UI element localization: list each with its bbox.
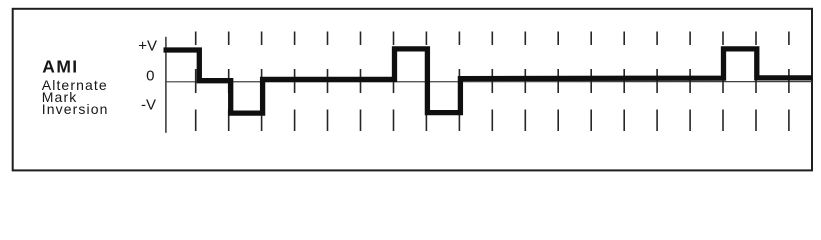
grid column 19 — [788, 32, 790, 132]
grid column 12 — [557, 32, 559, 132]
grid column 3 — [261, 32, 263, 132]
grid column 6 — [360, 32, 362, 132]
grid column 11 — [524, 32, 526, 132]
grid column 7 — [393, 32, 395, 132]
y-axis vertical line — [165, 37, 167, 133]
grid column 9 — [458, 32, 460, 132]
grid column 8 — [425, 32, 427, 132]
grid column 17 — [722, 32, 724, 132]
grid column 1 — [195, 32, 197, 132]
grid column 4 — [294, 32, 296, 132]
zero axis horizontal line — [165, 81, 812, 83]
grid column 15 — [656, 32, 658, 132]
svg-text:+V: +V — [138, 38, 157, 55]
svg-text:-V: -V — [141, 97, 156, 114]
bit-boundary dashed grid lines — [196, 32, 789, 132]
grid column 10 — [491, 32, 493, 132]
svg-text:0: 0 — [146, 67, 154, 84]
outer frame border — [13, 9, 812, 171]
svg-text:AMI: AMI — [42, 57, 78, 77]
AMI waveform trace — [164, 49, 813, 113]
grid column 5 — [327, 32, 329, 132]
svg-text:Inversion: Inversion — [42, 101, 109, 117]
grid column 2 — [228, 32, 230, 132]
grid column 18 — [755, 32, 757, 132]
grid column 14 — [623, 32, 625, 132]
grid column 16 — [689, 32, 691, 132]
grid column 13 — [590, 32, 592, 132]
